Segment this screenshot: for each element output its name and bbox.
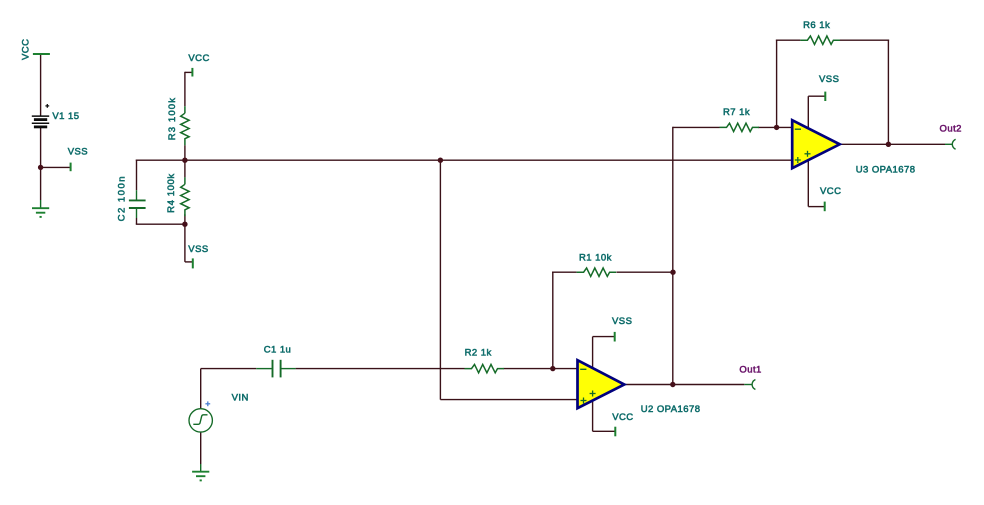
svg-text:R7 1k: R7 1k [723, 107, 750, 118]
svg-text:C2 100n: C2 100n [116, 175, 127, 221]
svg-text:VIN: VIN [232, 393, 249, 404]
svg-text:U2 OPA1678: U2 OPA1678 [641, 404, 701, 415]
svg-text:VCC: VCC [612, 412, 633, 423]
svg-text:VSS: VSS [612, 316, 632, 327]
svg-text:VSS: VSS [68, 147, 88, 158]
svg-text:VSS: VSS [188, 244, 208, 255]
svg-text:Out2: Out2 [940, 124, 962, 135]
svg-text:R2 1k: R2 1k [465, 347, 492, 358]
svg-text:VCC: VCC [820, 186, 841, 197]
svg-text:R6 1k: R6 1k [803, 20, 830, 31]
svg-text:R4 100k: R4 100k [166, 173, 177, 213]
svg-text:R1 10k: R1 10k [579, 253, 612, 264]
svg-text:U3 OPA1678: U3 OPA1678 [856, 164, 916, 175]
svg-text:VCC: VCC [188, 53, 209, 64]
svg-text:VSS: VSS [819, 74, 839, 85]
svg-text:Out1: Out1 [739, 364, 761, 375]
svg-text:V1 15: V1 15 [52, 111, 79, 122]
svg-text:R3 100k: R3 100k [167, 97, 178, 140]
svg-text:VCC: VCC [21, 39, 32, 60]
svg-text:C1 1u: C1 1u [264, 344, 292, 355]
